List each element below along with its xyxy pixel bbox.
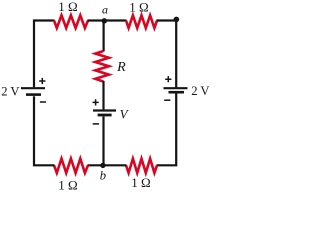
battery V : minus sign <box>93 123 99 125</box>
resistor R3 (bottom-left, 1 ohm) <box>54 159 88 173</box>
svg-text:R: R <box>116 60 126 75</box>
battery left 2 V : minus sign <box>40 101 46 103</box>
battery left 2 V : plus sign <box>39 78 45 84</box>
svg-text:a: a <box>102 3 108 17</box>
battery V : plus sign <box>93 99 99 105</box>
wire: bottom segment through node b <box>88 164 127 166</box>
svg-text:1 Ω: 1 Ω <box>58 0 77 14</box>
node a <box>102 18 107 23</box>
wire: right-lower + bottom-right corner + bottom segment to R4 <box>157 94 177 166</box>
battery right 2 V : short plate <box>169 91 185 94</box>
wire: top segment to top-right corner + right-upper <box>157 21 177 88</box>
battery V : short plate <box>98 114 112 117</box>
svg-text:1 Ω: 1 Ω <box>58 177 77 190</box>
svg-text:1 Ω: 1 Ω <box>131 175 150 190</box>
svg-text:V: V <box>120 106 130 121</box>
resistor R (middle vertical) <box>95 51 109 82</box>
wire: middle branch from node a down to R <box>102 21 104 52</box>
battery left 2 V : long plate <box>21 87 45 89</box>
junction dot top-right corner <box>174 17 180 23</box>
battery V : long plate <box>93 109 116 111</box>
resistor R1 (top-left, 1 ohm) <box>54 15 88 28</box>
svg-text:2 V: 2 V <box>1 85 19 99</box>
node b <box>100 163 105 168</box>
battery left 2 V : short plate <box>26 93 41 96</box>
wire: top segment through node a <box>88 19 127 21</box>
battery right 2 V : minus sign <box>164 99 170 101</box>
wire: left-upper + top-left corner + top segment to R1 <box>34 21 55 88</box>
svg-text:2 V: 2 V <box>191 84 209 98</box>
wire: bottom segment + bottom-left corner + left-lower <box>34 96 55 165</box>
battery right 2 V : long plate <box>164 87 188 89</box>
battery right 2 V : plus sign <box>165 76 171 82</box>
svg-text:1 Ω: 1 Ω <box>129 0 148 15</box>
wire: middle branch from R to battery V <box>102 81 104 109</box>
svg-text:b: b <box>100 168 106 182</box>
wire: middle branch from battery V down to node b <box>102 117 104 166</box>
resistor R2 (top-right, 1 ohm) <box>126 15 157 28</box>
resistor R4 (bottom-right, 1 ohm) <box>126 159 157 173</box>
